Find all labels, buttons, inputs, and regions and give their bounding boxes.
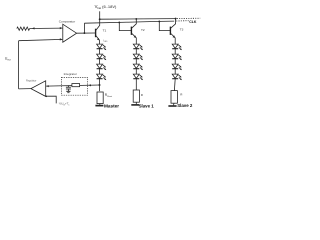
LED D2 master [97, 54, 107, 64]
op-amp U1 comparator [63, 24, 77, 42]
ground integrator [66, 91, 70, 92]
ground slave2 [168, 105, 176, 107]
LED D3 master [97, 64, 107, 74]
wire T3 base riser [159, 21, 170, 30]
svg-text:T1: T1 [103, 29, 107, 33]
node U2 ref corner [46, 96, 48, 98]
wire U2 reference input [46, 96, 57, 103]
node supply junction [99, 18, 101, 20]
node base drive junction [83, 32, 85, 34]
node T3 collector junction [175, 18, 177, 20]
LED D9 slave2 [172, 44, 182, 54]
arrowhead into comparator - input [60, 38, 63, 40]
supply stub V_bat [99, 11, 101, 19]
resistor R slave2 [171, 91, 177, 104]
svg-text:Regulator: Regulator [26, 79, 37, 82]
LED D12 slave2 [172, 74, 182, 80]
LED D11 slave2 [172, 64, 182, 74]
arrowhead into amplifier input [46, 85, 49, 87]
LED D1 master [97, 44, 107, 54]
arrow mark on input wire [32, 27, 35, 29]
resistor R1 (input zigzag) [17, 27, 30, 30]
svg-text:Comparator: Comparator [59, 19, 75, 23]
LED D6 slave1 [133, 54, 143, 64]
wire feedback to comparator - input [19, 39, 63, 40]
node T3 base tap [158, 20, 160, 22]
wire T2 base riser [119, 22, 131, 30]
op-amp U2 amplifier [31, 81, 46, 97]
wire comparator output to T1 base [77, 32, 96, 34]
node T2 base tap [118, 21, 120, 23]
svg-text:Master: Master [104, 104, 119, 109]
svg-text:T2: T2 [141, 28, 145, 32]
wire slave2 resistor to ground [173, 103, 176, 105]
ground master [95, 105, 103, 107]
wire slave2 string to resistor [173, 79, 176, 91]
wire power rail dashed continuation [177, 17, 200, 19]
transistor Q1 T1 [96, 19, 100, 44]
wire riser base rail [83, 23, 85, 33]
wire slave1 resistor to ground [135, 102, 137, 104]
wire base rail dashed continuation [176, 20, 188, 22]
node master shunt tap [99, 84, 101, 86]
LED D5 slave1 [133, 44, 143, 54]
arrowhead into comparator + input [60, 27, 63, 29]
wire resistor to comparator + input [30, 27, 63, 29]
transistor Q3 T3 [170, 19, 175, 44]
LED D4 master [97, 74, 107, 80]
svg-text:CLK: CLK [189, 20, 197, 24]
wire slave1 string to resistor [135, 79, 137, 90]
LED D8 slave1 [133, 74, 143, 80]
capacitor C1 integrator [66, 85, 71, 91]
wire power rail [100, 18, 176, 21]
svg-text:Integrator: Integrator [64, 72, 77, 76]
svg-text:T3: T3 [180, 27, 184, 31]
wire base rail [84, 21, 174, 23]
transistor Q2 T2 [131, 19, 136, 44]
svg-text:Slave 2: Slave 2 [177, 103, 193, 108]
svg-text:Slave 1: Slave 1 [139, 104, 155, 109]
resistor R_shunt master [97, 92, 103, 104]
wire master shunt to ground [99, 104, 101, 105]
wire feedback riser [18, 41, 20, 89]
ground slave1 [131, 104, 139, 106]
LED D7 slave1 [133, 64, 143, 74]
wire U2 output [19, 88, 31, 90]
LED D10 slave2 [172, 54, 182, 64]
node T2 collector junction [135, 18, 137, 20]
resistor R slave1 [133, 90, 139, 102]
integrator dashed box [61, 77, 87, 95]
wire master string to shunt [99, 79, 101, 91]
resistor R2 integrator series [72, 84, 80, 87]
arrowhead into integrator box [88, 84, 91, 86]
wire sense line to integrator and amplifier [46, 85, 100, 86]
